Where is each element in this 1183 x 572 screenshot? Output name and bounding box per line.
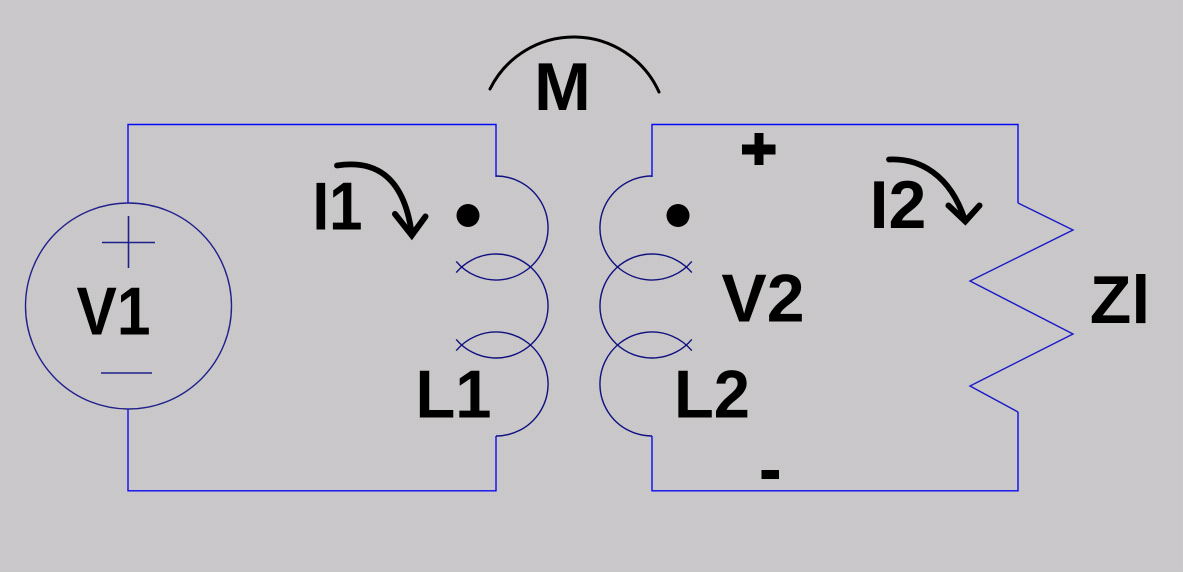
polarity dot of L2: [667, 204, 690, 227]
minus label of V2: [762, 470, 780, 479]
svg-text:L2: L2: [674, 357, 750, 433]
polarity dot of L1: [457, 204, 480, 227]
resistor Zl zigzag: [970, 203, 1073, 412]
voltage source V1 circle: [26, 203, 232, 409]
wire top-left loop: [128, 125, 496, 204]
wire bottom-left loop: [128, 409, 496, 491]
svg-text:L1: L1: [416, 357, 492, 433]
current arrow I2: [889, 159, 980, 221]
wire top-right loop: [652, 125, 1018, 204]
svg-text:M: M: [534, 49, 591, 125]
svg-text:V2: V2: [721, 261, 804, 337]
plus label of V2: [742, 133, 776, 165]
svg-text:I2: I2: [870, 167, 927, 243]
minus mark inside V1: [101, 372, 152, 374]
svg-text:V1: V1: [77, 274, 151, 350]
current arrow I1: [337, 164, 426, 235]
svg-text:Zl: Zl: [1090, 262, 1150, 338]
mutual inductance arc M: [490, 37, 659, 92]
plus mark inside V1: [102, 216, 155, 268]
svg-text:I1: I1: [313, 169, 363, 245]
inductor L2: [600, 176, 692, 436]
inductor L1: [456, 176, 548, 436]
wire bottom-right loop: [652, 412, 1018, 491]
